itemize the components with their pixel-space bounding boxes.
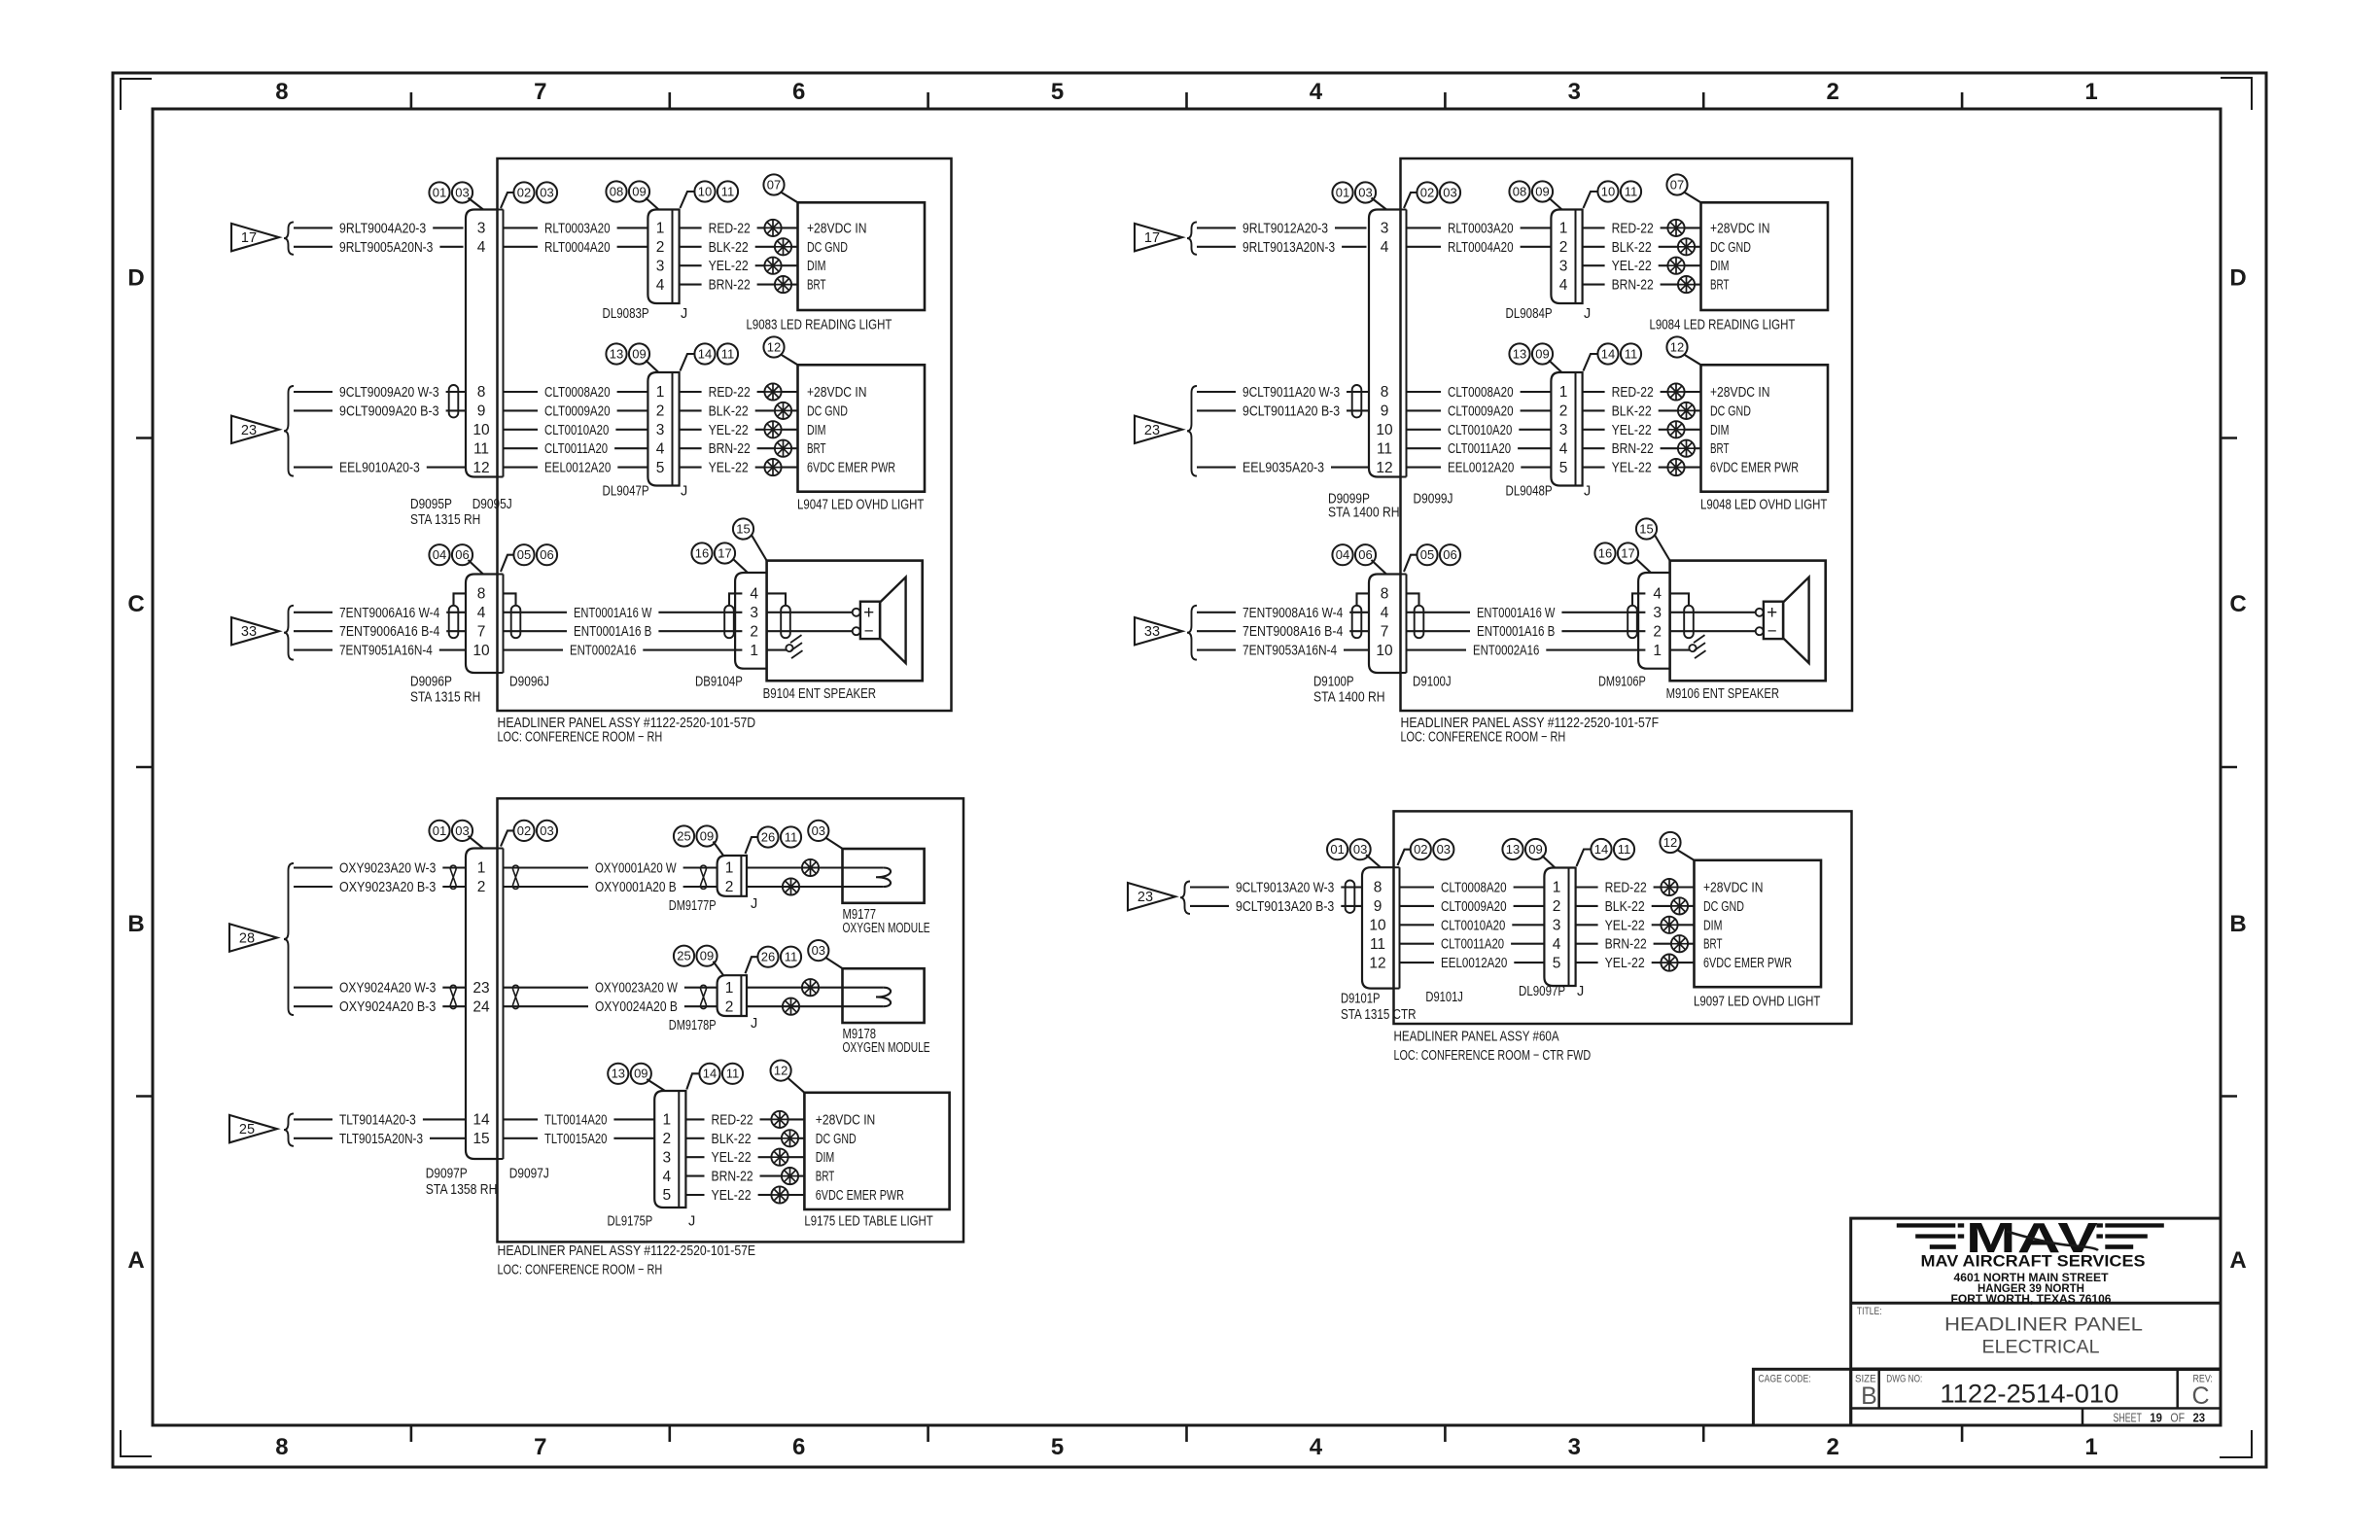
svg-text:14: 14 [698,346,712,361]
svg-text:4: 4 [1559,440,1568,457]
speaker driver [1756,602,1783,641]
zone numbers top [275,79,2098,105]
svg-text:5: 5 [662,1187,671,1204]
box L9175 [804,1093,949,1209]
svg-text:13: 13 [1513,346,1526,361]
wire RED-22 pin 1 [1583,385,1701,401]
svg-text:9RLT9012A20-3: 9RLT9012A20-3 [1242,221,1328,236]
splice wheel [764,383,781,400]
wire CLT0011A20 [1407,441,1552,457]
inner border frame [153,109,2221,1425]
svg-text:BRN-22: BRN-22 [709,441,751,457]
svg-text:OXYGEN MODULE: OXYGEN MODULE [843,1040,930,1056]
panel assy outline block4 [1394,811,1852,1024]
ref circle 15 [733,518,753,539]
svg-text:CLT0010A20: CLT0010A20 [544,423,609,438]
wire 9RLT9004A20-3 [294,221,464,236]
wire YEL-22 pin 3 [1583,423,1701,438]
svg-text:7ENT9006A16 B-4: 7ENT9006A16 B-4 [339,624,439,640]
leader to jack [501,192,514,208]
svg-text:3: 3 [1381,221,1389,237]
wire YEL-22 pin 3 [680,259,798,274]
svg-text:DIM: DIM [816,1150,835,1166]
svg-text:FORT WORTH, TEXAS 76106: FORT WORTH, TEXAS 76106 [1951,1292,2112,1306]
wire 7ENT9053A16N-4 [1197,644,1369,659]
wire 9CLT9013A20 B-3 [1190,899,1362,915]
splice wheel [802,859,819,876]
speaker horn [880,577,906,663]
svg-text:ENT0001A16 B: ENT0001A16 B [1477,624,1555,640]
flag 33 [231,617,279,645]
svg-text:OXY9024A20 W-3: OXY9024A20 W-3 [339,981,436,997]
svg-text:11: 11 [721,346,735,361]
pin 8 stub right [1407,593,1419,605]
svg-text:33: 33 [1144,624,1160,640]
svg-text:CLT0011A20: CLT0011A20 [1441,937,1504,953]
svg-text:−: − [1767,621,1777,640]
wire EEL0012A20 [1407,461,1552,476]
splice wheel [771,1149,787,1166]
svg-text:12: 12 [767,339,781,354]
wire OXY9023A20 W-3 [294,861,466,877]
wire YEL-22 pin 5 [1583,461,1701,476]
ref circles 26 11 [757,947,801,967]
svg-text:03: 03 [540,823,553,838]
box M9177 [843,849,925,903]
svg-text:10: 10 [1601,184,1615,198]
svg-text:J: J [688,1213,695,1229]
svg-text:OXY0001A20 W: OXY0001A20 W [595,861,677,877]
svg-text:BLK-22: BLK-22 [1605,899,1645,915]
leader to plug [469,198,484,210]
svg-text:3: 3 [662,1149,671,1166]
wire CLT0011A20 [1400,937,1545,953]
svg-text:D9096J: D9096J [509,675,549,690]
svg-text:EEL9010A20-3: EEL9010A20-3 [339,461,420,476]
title block title divider [1851,1368,2221,1372]
svg-text:CLT0010A20: CLT0010A20 [1441,918,1505,933]
wire OXY9024A20 B-3 [294,999,466,1015]
splice wheel [775,402,791,419]
wire EEL9035A20-3 [1197,461,1369,476]
twisted pair capsule [511,606,521,638]
ref circles 01 03 (DL9083P group) [429,182,472,202]
wire CLT0009A20 [504,403,648,419]
brace flag 17 [284,222,294,254]
wire OXY0001A20 W [504,861,717,877]
svg-text:RLT0003A20: RLT0003A20 [544,221,611,236]
svg-text:3: 3 [656,258,665,274]
speaker horn [1783,577,1809,663]
zone numbers bottom [275,1434,2098,1460]
svg-text:14: 14 [703,1067,717,1081]
wire 9CLT9011A20 B-3 [1197,403,1369,419]
svg-text:DL9047P: DL9047P [603,484,649,500]
panel assy outline block1 [498,158,952,711]
svg-text:28: 28 [239,931,255,947]
ref circles 02 03 [513,182,557,202]
wire BLK-22 pin 2 [680,240,798,256]
leader to M9178 [825,958,843,968]
svg-text:01: 01 [433,823,446,838]
svg-text:16: 16 [1598,545,1612,560]
svg-text:BRN-22: BRN-22 [709,278,751,294]
svg-text:BRN-22: BRN-22 [1605,937,1647,953]
box L9083 [798,202,926,310]
connector DL9083P [647,210,679,304]
svg-text:D9095P: D9095P [410,497,452,512]
leader to plug [1372,198,1387,210]
svg-text:3: 3 [1568,79,1581,105]
title block outline [1851,1218,2221,1425]
connector DL9048P [1551,372,1582,486]
svg-text:CLT0009A20: CLT0009A20 [1448,403,1514,419]
splice wheel [1678,238,1695,255]
leader to L9048 [1684,355,1701,366]
connector DL9047P [647,372,679,486]
splice wheel [1671,897,1688,914]
twisted pair capsule [449,606,459,638]
leader to plug [469,560,484,575]
svg-text:CLT0008A20: CLT0008A20 [544,385,611,401]
leader to DL9047P [646,361,658,373]
svg-text:11: 11 [1618,842,1631,857]
svg-text:HEADLINER PANEL ASSY #1122-252: HEADLINER PANEL ASSY #1122-2520-101-57E [498,1243,756,1259]
flag 33 [1135,617,1182,645]
ref circles 04 06 [1332,544,1376,565]
wire ENT0002A16 [1407,644,1646,659]
pin 4 stub left [729,593,742,605]
svg-text:BRN-22: BRN-22 [712,1170,753,1185]
svg-text:BRT: BRT [1703,937,1723,953]
twisted pair capsule [1627,606,1637,638]
svg-text:05: 05 [517,547,531,562]
svg-text:09: 09 [634,1067,647,1081]
pin 8 stub left [1357,593,1370,605]
svg-text:06: 06 [540,547,553,562]
svg-text:23: 23 [472,980,489,997]
leader to M9177 [825,838,843,849]
svg-text:2: 2 [1553,898,1561,915]
svg-text:7: 7 [534,79,546,105]
wire CLT0009A20 [1407,403,1552,419]
svg-text:06: 06 [1443,547,1456,562]
svg-text:3: 3 [1653,605,1662,621]
ref circle 12 [1660,832,1680,853]
leader to jack J [1577,850,1592,867]
leader to DB9104P [733,559,749,574]
wire pin 1 to ground [767,649,787,651]
svg-text:BRT: BRT [1710,278,1730,294]
svg-text:DB9104P: DB9104P [695,675,743,690]
svg-text:11: 11 [721,184,735,198]
svg-text:6VDC EMER PWR: 6VDC EMER PWR [816,1188,904,1204]
svg-text:+28VDC IN: +28VDC IN [807,221,867,236]
connector DM9177P [717,856,747,896]
svg-text:3: 3 [750,605,758,621]
svg-text:L9083 LED READING LIGHT: L9083 LED READING LIGHT [747,318,892,333]
svg-text:7ENT9008A16 B-4: 7ENT9008A16 B-4 [1242,624,1343,640]
svg-text:17: 17 [717,545,731,560]
splice wheel [1661,955,1677,971]
svg-text:3: 3 [1553,918,1561,934]
wire RLT0004A20 [1407,240,1552,256]
leader to L9083 [781,192,798,203]
svg-text:YEL-22: YEL-22 [709,259,749,274]
svg-text:9CLT9009A20 W-3: 9CLT9009A20 W-3 [339,385,439,401]
svg-text:8: 8 [275,1434,288,1460]
rev column divider [2176,1369,2179,1408]
wire CLT0008A20 [1400,881,1545,896]
svg-text:11: 11 [1370,936,1385,953]
svg-text:J: J [681,484,687,500]
twisted pair capsule [1352,606,1362,638]
svg-text:OXY9024A20 B-3: OXY9024A20 B-3 [339,999,436,1015]
wire BRN-22 pin 4 [685,1170,804,1185]
svg-text:4: 4 [656,440,665,457]
wire EEL0012A20 [1400,956,1545,971]
svg-text:STA 1358 RH: STA 1358 RH [426,1182,498,1198]
svg-text:8: 8 [477,384,486,401]
svg-text:BLK-22: BLK-22 [709,240,749,256]
svg-text:8: 8 [1374,880,1382,896]
splice wheel [782,1130,798,1146]
svg-text:1: 1 [662,1112,671,1129]
svg-text:14: 14 [1594,842,1608,857]
splice wheel [1667,220,1684,236]
ref circle 03 [808,940,828,961]
svg-text:YEL-22: YEL-22 [1612,259,1652,274]
splice wheel [783,878,799,894]
svg-text:4: 4 [1310,1434,1323,1460]
wire 9CLT9011A20 W-3 [1197,385,1369,401]
svg-text:2: 2 [750,623,758,640]
svg-text:2: 2 [477,879,486,895]
logo speed bars right [2096,1223,2163,1248]
svg-text:09: 09 [700,828,714,843]
wire CLT0008A20 [1407,385,1552,401]
svg-text:23: 23 [2193,1412,2206,1425]
svg-text:6VDC EMER PWR: 6VDC EMER PWR [807,461,895,476]
svg-text:LOC: CONFERENCE ROOM − CTR FWD: LOC: CONFERENCE ROOM − CTR FWD [1394,1048,1592,1064]
wire BLK-22 pin 2 [680,403,798,419]
svg-text:17: 17 [1144,230,1160,246]
wire ENT0001A16 B [1407,624,1646,640]
ref circles 25 09 [674,825,717,846]
svg-text:J: J [1577,984,1584,999]
svg-text:3: 3 [477,221,486,237]
svg-text:2: 2 [1827,1434,1839,1460]
svg-text:+28VDC IN: +28VDC IN [816,1112,876,1128]
svg-text:+28VDC IN: +28VDC IN [1710,221,1770,236]
wire ENT0001A16 W [504,606,743,621]
ref circles 05 06 [513,544,557,565]
leader to DM9178P [714,962,724,975]
svg-text:7: 7 [1381,623,1389,640]
svg-text:DL9097P: DL9097P [1519,984,1565,999]
svg-text:07: 07 [767,177,781,192]
ref circle 03 [808,821,828,841]
flag 23 [231,416,279,443]
svg-text:L9084 LED READING LIGHT: L9084 LED READING LIGHT [1650,318,1796,333]
wire pin 1 to ground [1670,649,1690,651]
wire BRN-22 pin 4 [680,441,798,457]
wire BLK-22 pin 2 [685,1132,804,1147]
svg-text:STA 1315 RH: STA 1315 RH [410,690,480,706]
svg-text:TLT0015A20: TLT0015A20 [544,1132,607,1147]
leader to jack J [746,837,758,854]
svg-text:06: 06 [1358,547,1372,562]
svg-text:B9104 ENT SPEAKER: B9104 ENT SPEAKER [763,686,877,702]
svg-text:D9096P: D9096P [410,675,452,690]
ref circles 16 17 [1594,542,1638,563]
svg-text:BRN-22: BRN-22 [1612,441,1654,457]
box B9104 [767,561,923,682]
svg-text:04: 04 [1336,547,1349,562]
twisted pair capsule [1346,881,1355,913]
svg-text:TLT9015A20N-3: TLT9015A20N-3 [339,1132,423,1147]
svg-text:RED-22: RED-22 [709,385,751,401]
connector DL9084P [1551,210,1582,304]
splice wheel [802,979,819,996]
splice wheel [764,258,781,274]
corner bracket top-right [2221,78,2252,110]
svg-text:B: B [2229,911,2246,937]
jack D9095J [503,210,505,477]
svg-text:BRN-22: BRN-22 [1612,278,1654,294]
svg-text:C: C [2191,1382,2209,1410]
wire RED-22 pin 1 [685,1112,804,1128]
ref circle 12 [763,336,784,357]
svg-text:J: J [681,306,687,322]
wire 7ENT9006A16 W-4 [294,606,466,621]
connector D9101P [1362,867,1394,988]
wire to + terminal [1670,612,1756,613]
svg-text:LOC: CONFERENCE ROOM − RH: LOC: CONFERENCE ROOM − RH [498,1263,663,1278]
wire ENT0001A16 B [504,624,743,640]
svg-text:D: D [2229,265,2246,292]
svg-text:03: 03 [812,823,825,838]
svg-text:10: 10 [472,643,490,659]
svg-text:15: 15 [736,521,750,536]
leader to DL9083P [646,198,659,210]
svg-text:ENT0001A16 W: ENT0001A16 W [574,606,652,621]
svg-text:+28VDC IN: +28VDC IN [807,385,867,401]
svg-text:OF: OF [2170,1412,2185,1425]
chassis ground [786,635,802,658]
ref circles 02 03 [1417,182,1460,202]
svg-text:TITLE:: TITLE: [1857,1306,1882,1317]
svg-text:11: 11 [1625,346,1638,361]
splice wheel [1661,879,1677,895]
corner bracket bottom-left [121,1430,152,1456]
ref circles 14 11 [1597,343,1641,364]
title block logo divider [1851,1302,2221,1305]
wire YEL-22 pin 5 [680,461,798,476]
svg-text:9CLT9011A20 B-3: 9CLT9011A20 B-3 [1242,403,1340,419]
svg-text:TLT0014A20: TLT0014A20 [544,1112,607,1128]
pin 4 stub right [1670,593,1689,605]
leader to jack J [681,192,695,208]
ref circles 01 03 [429,821,472,841]
svg-text:HEADLINER PANEL ASSY #60A: HEADLINER PANEL ASSY #60A [1394,1030,1559,1045]
svg-text:4: 4 [477,605,486,621]
svg-text:03: 03 [1353,842,1367,857]
svg-text:DC GND: DC GND [1710,240,1751,256]
svg-text:B: B [1861,1382,1877,1410]
svg-text:12: 12 [1376,460,1392,476]
svg-text:STA 1400 RH: STA 1400 RH [1328,506,1400,521]
ref circle 12 [771,1061,791,1081]
connector D9097P [466,849,498,1160]
leader to plug [1366,855,1381,867]
brace flag 28 [284,863,294,1015]
wire 9RLT9012A20-3 [1197,221,1367,236]
svg-text:C: C [2229,591,2246,617]
svg-text:YEL-22: YEL-22 [1605,918,1645,933]
svg-text:03: 03 [1437,842,1451,857]
svg-text:STA 1315 CTR: STA 1315 CTR [1341,1007,1417,1023]
ref circles 02 03 block4 [1411,839,1454,859]
leader to plug [1372,560,1387,575]
ref circles 26 11 [757,826,801,847]
sheet row divider [2082,1409,2084,1426]
svg-text:10: 10 [698,184,712,198]
svg-text:07: 07 [1670,177,1684,192]
connector DM9178P [717,975,747,1016]
splice wheel [775,440,791,457]
splice wheel [775,238,791,255]
splice wheel [771,1186,787,1203]
leader to jack J [1584,192,1598,208]
wire OXY0001A20 B [504,880,717,895]
svg-text:03: 03 [1443,185,1456,199]
svg-text:RLT0004A20: RLT0004A20 [544,240,611,256]
leader to jack J [1584,354,1598,371]
svg-text:03: 03 [455,185,469,199]
svg-text:09: 09 [632,346,646,361]
svg-text:1: 1 [725,980,734,997]
svg-text:D9095J: D9095J [472,497,512,512]
svg-text:RED-22: RED-22 [712,1112,753,1128]
svg-text:RED-22: RED-22 [709,221,751,236]
splice wheel [775,276,791,293]
svg-text:J: J [1584,306,1591,322]
svg-text:HEADLINER PANEL: HEADLINER PANEL [1944,1315,2143,1336]
wire BRN-22 pin 4 [1576,937,1695,953]
svg-text:15: 15 [1639,521,1653,536]
svg-text:J: J [1584,484,1591,500]
svg-text:CLT0011A20: CLT0011A20 [1448,441,1511,457]
ref circles 04 06 [429,544,472,565]
connector D9096P [466,575,498,674]
svg-text:CAGE CODE:: CAGE CODE: [1758,1374,1810,1385]
ref circles 13 09 [1502,839,1546,859]
svg-text:1122-2514-010: 1122-2514-010 [1940,1380,2118,1409]
wire TLT0014A20 [504,1112,655,1128]
svg-text:09: 09 [700,949,714,963]
wire TLT9014A20-3 [294,1112,466,1128]
wire EEL0012A20 [504,461,648,476]
svg-text:25: 25 [677,828,690,843]
svg-text:16: 16 [695,545,709,560]
svg-text:14: 14 [1601,346,1615,361]
svg-text:2: 2 [725,998,734,1015]
leader to jack [1398,850,1411,865]
svg-text:7: 7 [534,1434,546,1460]
wire TLT0015A20 [504,1132,655,1147]
splice wheel [1678,276,1695,293]
